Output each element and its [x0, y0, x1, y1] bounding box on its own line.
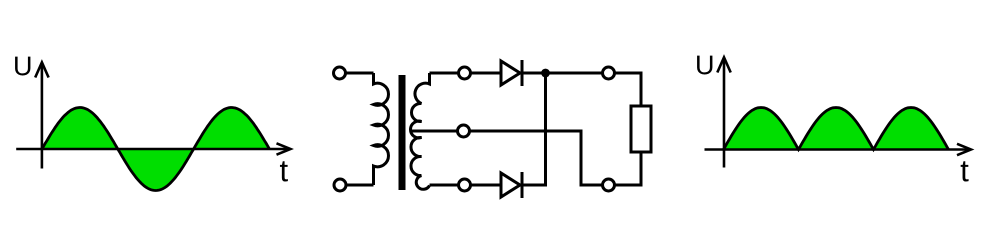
transformer primary terminal (top)	[334, 67, 346, 79]
wire output top to resistor	[615, 73, 641, 106]
wire secondary bottom	[430, 184, 459, 187]
wire primary bottom	[347, 184, 374, 187]
wire D2 to node riser	[522, 184, 547, 187]
transformer secondary winding L2 (center-tapped)	[410, 73, 429, 189]
wire output bottom to center tap	[581, 131, 602, 185]
input graph axis label U	[15, 57, 30, 76]
wire to diode D2	[471, 184, 501, 187]
wire primary top	[347, 72, 374, 75]
wire node to bottom rail	[544, 73, 547, 187]
output waveform green fill	[724, 108, 949, 150]
input waveform green fill	[42, 108, 269, 191]
input graph time axis label t	[280, 161, 288, 181]
transformer core	[399, 75, 406, 190]
wire center tap to right	[471, 130, 583, 133]
node junction dot	[541, 69, 550, 78]
wire resistor bottom	[615, 152, 641, 185]
resistor R (load)	[631, 106, 651, 152]
input sine curve	[42, 108, 269, 191]
wire D1 to node	[522, 72, 602, 75]
output graph axis label U	[697, 56, 712, 75]
center tap terminal	[458, 125, 470, 137]
input graph horizontal axis	[16, 143, 290, 154]
transformer primary winding L1	[374, 73, 389, 185]
transformer primary terminal (bottom)	[334, 179, 346, 191]
output top terminal	[603, 67, 615, 79]
output graph horizontal axis	[705, 144, 972, 155]
wire secondary top	[430, 72, 459, 75]
secondary top terminal	[459, 67, 471, 79]
diode D1	[501, 60, 522, 86]
diode D2	[501, 172, 522, 198]
output graph time axis label t	[961, 161, 969, 181]
secondary bottom terminal	[459, 179, 471, 191]
output bottom terminal	[603, 179, 615, 191]
center tap wire	[412, 130, 457, 133]
output rectified curve	[724, 108, 949, 150]
input graph vertical axis	[35, 62, 48, 168]
wire to diode D1	[471, 72, 501, 75]
output graph vertical axis	[717, 57, 730, 167]
